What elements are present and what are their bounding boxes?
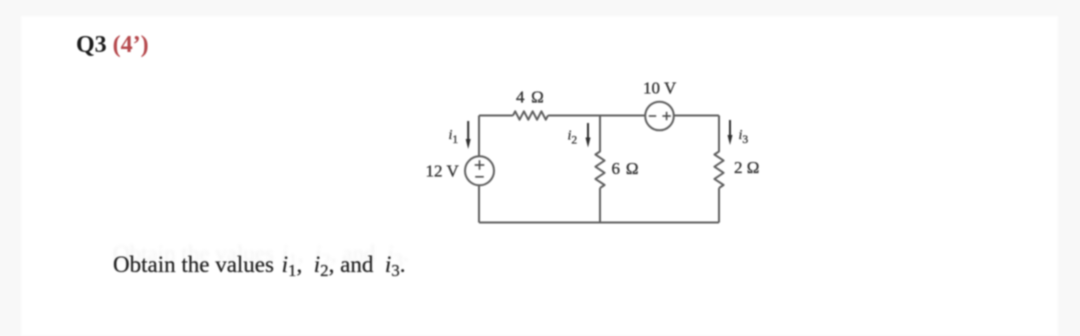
svg-text:i3: i3 <box>739 128 749 146</box>
svg-text:4 Ω: 4 Ω <box>516 88 545 107</box>
svg-text:6 Ω: 6 Ω <box>612 159 640 178</box>
svg-text:12 V: 12 V <box>426 161 460 180</box>
svg-text:i1: i1 <box>449 128 459 146</box>
svg-text:2 Ω: 2 Ω <box>734 158 759 177</box>
svg-text:i2: i2 <box>568 128 578 146</box>
svg-text:10 V: 10 V <box>643 79 677 98</box>
